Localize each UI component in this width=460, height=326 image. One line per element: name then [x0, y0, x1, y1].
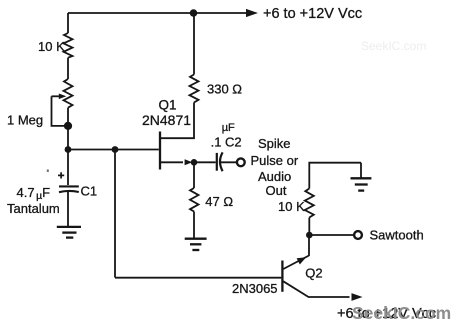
node bottom branch junction — [112, 146, 119, 153]
wire to C2 — [194, 161, 216, 163]
wire base1 lead with arrow — [160, 161, 183, 163]
wire Q2 top lead diagonal with arrow — [283, 256, 309, 270]
svg-text:SeekIC.com: SeekIC.com — [352, 303, 451, 323]
wire base2 lead — [161, 103, 194, 139]
wire C1 bottom lead — [67, 192, 69, 227]
svg-text:µF: µF — [222, 122, 235, 134]
resistor 10K right — [305, 189, 314, 218]
ground C1 — [57, 227, 81, 238]
svg-text:2N4871: 2N4871 — [142, 112, 191, 128]
transistor Q2 bar — [281, 261, 283, 292]
wire ground stub right — [360, 163, 362, 179]
svg-text:1 Meg: 1 Meg — [7, 113, 43, 128]
svg-text:SeekIC.com: SeekIC.com — [361, 39, 426, 53]
svg-text:C1: C1 — [81, 184, 98, 199]
ground right — [351, 178, 372, 190]
capacitor C2 plates — [216, 153, 218, 171]
svg-text:10 K: 10 K — [38, 39, 65, 54]
svg-text:Q2: Q2 — [305, 266, 322, 281]
svg-text:Audio: Audio — [258, 169, 291, 184]
svg-text:+6 to +12V Vcc: +6 to +12V Vcc — [263, 6, 362, 22]
wire left vertical upper — [67, 13, 69, 33]
wire C2 to output terminal — [221, 161, 237, 163]
svg-text:2N3065: 2N3065 — [232, 281, 278, 296]
stray scan speck near C1 plus — [47, 170, 49, 172]
node C1 branch junction — [65, 146, 72, 153]
svg-text:Q1: Q1 — [159, 98, 177, 113]
resistor 330 ohm — [190, 75, 199, 103]
svg-text:.1 C2: .1 C2 — [211, 135, 242, 150]
potentiometer wiper arrow — [52, 95, 60, 97]
wire 47 ohm bottom lead — [193, 212, 195, 239]
capacitor C1 plates — [59, 185, 79, 187]
node output junction — [191, 159, 198, 166]
terminal sawtooth circle — [354, 231, 362, 239]
wire pot to C1 node — [67, 108, 69, 150]
wire bottom run to Q2 base — [115, 277, 281, 279]
ground 47 ohm — [185, 239, 207, 250]
wire top supply rail — [68, 12, 246, 14]
wire bottom branch vertical — [114, 150, 116, 278]
resistor 47 ohm — [190, 188, 199, 212]
node pot bottom junction — [64, 122, 72, 130]
svg-text:Pulse or: Pulse or — [251, 153, 299, 168]
wire between 10K and pot — [67, 58, 69, 79]
svg-text:Tantalum: Tantalum — [7, 201, 60, 216]
wire pot wiper return bracket — [52, 96, 67, 126]
transistor Q1 bar — [159, 132, 161, 170]
wire Q2 emitter lead to Vcc arrow — [283, 281, 349, 297]
wire 330 ohm top lead — [193, 13, 195, 75]
wire 10K right top lead — [309, 163, 361, 189]
wire emitter horizontal run — [68, 149, 159, 151]
svg-text:Sawtooth: Sawtooth — [370, 228, 424, 243]
arrow top Vcc — [246, 9, 258, 17]
wire C1 top lead — [67, 150, 69, 186]
potentiometer 1 Meg body — [64, 79, 73, 108]
svg-text:Out: Out — [266, 183, 287, 198]
wire Q2 top lead vertical — [308, 235, 310, 256]
node sawtooth junction — [306, 232, 313, 239]
node Vcc rail junction — [190, 9, 198, 17]
wire 47 ohm top lead — [193, 162, 195, 188]
terminal spike output circle — [237, 158, 245, 166]
svg-text:4.7µF: 4.7µF — [17, 185, 51, 202]
svg-text:330 Ω: 330 Ω — [207, 82, 242, 97]
wire 10K right bottom lead — [308, 218, 310, 236]
svg-text:10 K: 10 K — [278, 199, 305, 214]
wire sawtooth lead — [309, 234, 353, 236]
resistor 10K left — [64, 33, 73, 58]
svg-text:47 Ω: 47 Ω — [205, 194, 233, 209]
svg-text:Spike: Spike — [258, 136, 291, 151]
capacitor C1 plus sign — [58, 172, 64, 178]
